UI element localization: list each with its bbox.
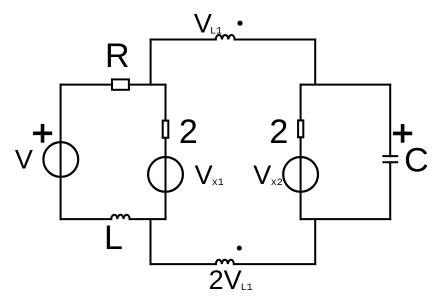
resistor R: [112, 79, 129, 89]
label Vx1: [195, 160, 224, 190]
wire right loop top: [301, 84, 391, 86]
wire top-right drop: [314, 40, 316, 85]
svg-text:2V: 2V: [209, 265, 242, 295]
polarity + (source V): [33, 124, 52, 143]
svg-text:L1: L1: [210, 27, 222, 38]
svg-text:2: 2: [269, 113, 288, 151]
label C: [404, 142, 429, 180]
svg-text:L: L: [104, 219, 123, 257]
resistor 2 (left loop): [163, 121, 169, 138]
svg-text:C: C: [404, 142, 429, 180]
wire right loop bottom: [301, 218, 391, 220]
wire bottom-left drop: [150, 219, 152, 264]
label L: [104, 219, 123, 257]
label 2VL1 (bottom rail voltage): [209, 265, 253, 295]
wire right loop left side lower: [300, 137, 302, 219]
svg-text:L1: L1: [241, 283, 253, 294]
svg-text:2: 2: [179, 113, 198, 151]
wire top-left drop: [150, 40, 152, 85]
wire right loop right side upper: [389, 85, 391, 157]
wire top rail left segment: [151, 39, 216, 41]
wire left loop right side upper: [165, 85, 167, 121]
wire left loop top (left of R): [61, 84, 112, 86]
derivative dot (top): [237, 21, 242, 26]
inductor L: [111, 215, 130, 219]
dependent source Vx2 circle: [283, 157, 318, 192]
inductor L1 (top rail): [216, 35, 235, 40]
dependent source Vx1 circle: [148, 157, 183, 192]
svg-text:x1: x1: [212, 178, 224, 189]
wire right loop right side lower: [389, 162, 391, 219]
inductor (bottom rail, 2VL1): [216, 260, 234, 264]
resistor 2 (right loop): [298, 120, 303, 137]
wire left loop right side lower: [165, 138, 167, 219]
label 2 (left resistor value): [179, 113, 198, 151]
label Vx2: [253, 160, 283, 190]
label R: [105, 37, 130, 75]
wire right loop left side upper: [300, 85, 302, 121]
label V (source): [15, 145, 33, 175]
svg-text:R: R: [105, 37, 130, 75]
label 2 (right resistor value): [269, 113, 288, 151]
wire left loop bottom (right of L): [130, 218, 166, 220]
label VL1 (top rail voltage): [194, 8, 222, 38]
svg-text:V: V: [15, 145, 33, 175]
svg-text:V: V: [195, 160, 213, 190]
svg-text:x2: x2: [271, 178, 283, 189]
wire bottom rail right segment: [234, 263, 315, 265]
wire left loop bottom (left of L): [61, 218, 112, 220]
wire left loop left side: [60, 85, 62, 220]
svg-text:V: V: [253, 160, 271, 190]
capacitor C bottom plate: [383, 161, 397, 163]
capacitor C top plate: [383, 155, 397, 157]
derivative dot (bottom): [237, 246, 242, 251]
source V circle: [43, 142, 78, 177]
wire left loop top (right of R): [129, 84, 166, 86]
wire bottom rail left segment: [151, 263, 216, 265]
wire top rail right segment: [235, 39, 316, 41]
polarity + (capacitor C): [393, 124, 412, 143]
wire bottom-right drop: [314, 219, 316, 264]
